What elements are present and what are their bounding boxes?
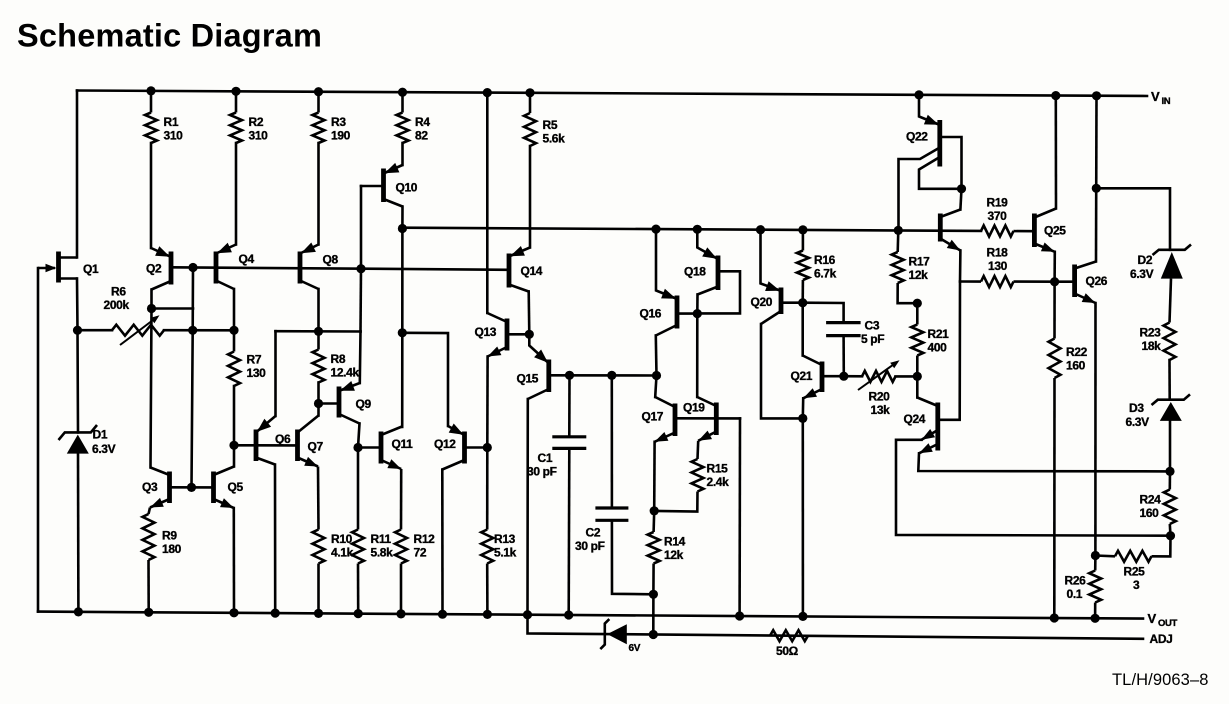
svg-text:R11: R11 bbox=[371, 532, 392, 546]
diode D2 zener 6.3V bbox=[1130, 245, 1191, 281]
svg-text:Q5: Q5 bbox=[228, 480, 244, 494]
diode D4 zener 6V bbox=[600, 619, 640, 654]
junction bottom rail / R13 bbox=[483, 610, 492, 619]
svg-text:2.4k: 2.4k bbox=[707, 475, 730, 489]
wire Q17 emitter to R14 bbox=[653, 442, 656, 511]
wire R1 to Q2 emitter bbox=[150, 143, 153, 248]
transistor Q14 (PNP) bbox=[509, 246, 543, 292]
wire Q3/Q5 base line bbox=[170, 486, 214, 489]
junction Q3/Q5 base bbox=[187, 483, 196, 492]
wire V_IN top rail bbox=[77, 91, 1147, 97]
junction second rail / R17 / Q22 collector bbox=[894, 226, 903, 235]
svg-text:Q22: Q22 bbox=[906, 129, 928, 143]
transistor Q18 (PNP) bbox=[684, 229, 740, 313]
resistor R11 bbox=[352, 448, 393, 614]
svg-text:12k: 12k bbox=[909, 268, 929, 282]
wire Q23 emitter to R18 bbox=[959, 251, 962, 282]
junction Q16/Q17 collectors bbox=[652, 371, 661, 380]
resistor 50Ω (ADJ line) bbox=[770, 630, 808, 658]
junction bottom rail / R11 bbox=[354, 609, 363, 618]
transistor Q12 (PNP, mirrored) bbox=[434, 424, 465, 470]
transistor Q22 (PNP, dual collector) bbox=[899, 95, 962, 231]
svg-text:Q6: Q6 bbox=[275, 432, 291, 446]
resistor R2 bbox=[230, 91, 268, 143]
svg-text:6.7k: 6.7k bbox=[814, 266, 837, 280]
svg-text:R22: R22 bbox=[1066, 345, 1088, 359]
diode D1 zener 6.3V bbox=[59, 425, 116, 456]
svg-text:R13: R13 bbox=[494, 532, 516, 546]
junction Q4 collector / R7 bbox=[229, 326, 238, 335]
wire Q24 emitter 1 to R24/R25 node bbox=[896, 440, 1171, 536]
svg-text:R1: R1 bbox=[164, 115, 179, 129]
junction R8 / Q9 base / Q7 collector bbox=[314, 399, 323, 408]
svg-text:OUT: OUT bbox=[1158, 618, 1178, 629]
svg-text:Q7: Q7 bbox=[308, 439, 324, 453]
junction Q1 source / R6 bbox=[73, 326, 82, 335]
svg-text:TL/H/9063–8: TL/H/9063–8 bbox=[1112, 671, 1209, 689]
svg-text:130: 130 bbox=[988, 259, 1008, 273]
wire Q10 collector to second rail bbox=[401, 207, 404, 229]
svg-text:IN: IN bbox=[1162, 96, 1171, 107]
svg-text:Q24: Q24 bbox=[904, 412, 926, 426]
wire bottom rail to V_OUT bbox=[38, 612, 1143, 619]
transistor Q5 (NPN) bbox=[214, 467, 244, 509]
junction Q25 emitter / R18 / Q26 base bbox=[1050, 277, 1059, 286]
wire Q24 collector bbox=[916, 376, 919, 397]
resistor R3 bbox=[313, 92, 351, 143]
wire Q12 collector to bottom rail bbox=[441, 470, 444, 615]
svg-text:R25: R25 bbox=[1124, 564, 1146, 578]
svg-text:5.8k: 5.8k bbox=[371, 545, 394, 559]
junction R21 / R20 / Q24 collector bbox=[913, 372, 922, 381]
svg-text:Q19: Q19 bbox=[683, 400, 705, 414]
transistor Q10 (PNP) bbox=[384, 163, 418, 207]
wire Q2 collector to Q3 collector bbox=[151, 309, 152, 468]
transistor Q15 (PNP) bbox=[517, 334, 549, 399]
wire node to Q19 collector bbox=[696, 314, 699, 397]
junction bottom rail / R22 bbox=[1050, 613, 1059, 622]
resistor R7 bbox=[228, 330, 266, 386]
resistor R25 bbox=[1095, 536, 1170, 592]
resistor R26 bbox=[1065, 556, 1102, 619]
junction R24 / R25 / Q24 emitter 1 bbox=[1166, 531, 1175, 540]
wire Q6/Q7 base line bbox=[234, 444, 298, 447]
wire base line drop to bottom rail bbox=[738, 418, 741, 616]
svg-text:C1: C1 bbox=[538, 451, 553, 465]
wire ADJ line bbox=[528, 615, 1144, 639]
transistor Q2 (PNP) bbox=[146, 246, 171, 289]
svg-text:72: 72 bbox=[414, 545, 427, 559]
svg-text:R6: R6 bbox=[111, 284, 126, 298]
capacitor C2 30pF bbox=[575, 375, 653, 594]
svg-text:82: 82 bbox=[415, 128, 428, 142]
wire Q10 base bbox=[361, 185, 384, 188]
junction base rail / Q2 tie column bbox=[188, 263, 197, 272]
junction bottom rail / Q5 bbox=[229, 608, 238, 617]
wire Q11 base bbox=[358, 446, 381, 449]
wire Q17 collector bbox=[655, 376, 656, 398]
wire Q13 base bbox=[507, 333, 529, 336]
transistor Q23 (NPN) bbox=[940, 210, 960, 251]
wire Q6 collector to bottom rail bbox=[274, 465, 277, 614]
junction bottom rail / Q12 bbox=[438, 610, 447, 619]
junction Q22 base+collector / Q23 collector bbox=[957, 184, 966, 193]
svg-text:R19: R19 bbox=[987, 195, 1009, 209]
svg-text:18k: 18k bbox=[1142, 339, 1162, 353]
resistor R12 bbox=[395, 469, 435, 614]
svg-text:R26: R26 bbox=[1065, 573, 1087, 587]
transistor Q17 (NPN, mirrored) bbox=[642, 397, 676, 442]
wire Q1 drain to V_IN bbox=[76, 91, 79, 258]
resistor R18 bbox=[960, 245, 1055, 287]
node V_OUT terminal bbox=[1148, 611, 1178, 629]
transistor Q24 (NPN, mirrored, dual emitter) bbox=[904, 398, 938, 454]
transistor Q8 (PNP) bbox=[300, 243, 338, 290]
svg-text:R18: R18 bbox=[987, 245, 1009, 259]
resistor R23 bbox=[1140, 279, 1176, 360]
junction V_IN rail / Q13 collector bbox=[483, 88, 492, 97]
wire R2 to Q4 emitter bbox=[235, 143, 238, 245]
wire R6 left lead bbox=[78, 329, 113, 332]
wire Q16 collector bbox=[654, 336, 657, 376]
junction V_IN rail / R4 bbox=[398, 88, 407, 97]
wire D3 anode to node bbox=[1169, 421, 1172, 472]
transistor Q9 (PNP) bbox=[339, 381, 371, 424]
svg-text:R9: R9 bbox=[162, 528, 177, 542]
svg-text:30 pF: 30 pF bbox=[527, 464, 557, 478]
svg-text:5.1k: 5.1k bbox=[494, 545, 517, 559]
wire Q16 base bbox=[677, 312, 697, 315]
junction R14 / C2 bbox=[649, 590, 658, 599]
junction V_IN rail / Q26 collector bbox=[1092, 91, 1101, 100]
svg-text:6.3V: 6.3V bbox=[92, 442, 116, 456]
wire Q21 base bbox=[822, 375, 844, 378]
junction R16 / Q20 base / Q21 collector / C3 bbox=[798, 298, 807, 307]
wire Q24 base loop up to R18 node bbox=[938, 282, 960, 420]
transistor Q4 (PNP) bbox=[216, 243, 254, 289]
svg-text:190: 190 bbox=[331, 128, 351, 142]
svg-text:R4: R4 bbox=[415, 115, 430, 129]
resistor R22 bbox=[1049, 282, 1088, 618]
wire Q18 collector to node bbox=[696, 295, 699, 314]
wire Q21 emitter bbox=[801, 398, 804, 418]
transistor Q21 (NPN, mirrored) bbox=[791, 356, 823, 399]
wire Q20 base bbox=[781, 301, 803, 304]
junction C3 / R20 bbox=[839, 372, 848, 381]
svg-text:400: 400 bbox=[928, 340, 948, 354]
svg-text:Q17: Q17 bbox=[642, 409, 664, 423]
junction second rail / R16 bbox=[798, 225, 807, 234]
svg-text:310: 310 bbox=[164, 128, 184, 142]
wire R8 to Q7 collector / Q9 base bbox=[317, 383, 320, 416]
svg-text:310: 310 bbox=[249, 128, 269, 142]
wire to R20 bbox=[844, 375, 862, 378]
junction C2 branch bbox=[607, 371, 616, 380]
svg-text:160: 160 bbox=[1066, 358, 1086, 372]
resistor R19 bbox=[981, 195, 1034, 236]
svg-text:Q10: Q10 bbox=[396, 180, 418, 194]
wire R20 to R21 bbox=[896, 375, 918, 378]
junction V_IN rail / Q25 collector bbox=[1051, 91, 1060, 100]
junction C1 branch bbox=[565, 371, 574, 380]
junction D2 branch bbox=[1092, 184, 1101, 193]
junction Q6 base line bbox=[229, 441, 238, 450]
resistor R13 bbox=[481, 448, 516, 615]
wire Q13 emitter to Q12 base node bbox=[486, 357, 489, 448]
resistor R14 bbox=[648, 511, 686, 635]
resistor R21 bbox=[911, 303, 949, 376]
svg-text:Q16: Q16 bbox=[640, 306, 662, 320]
junction R14 top / R15 bbox=[650, 506, 659, 515]
resistor R24 bbox=[1140, 471, 1176, 535]
wire R3 to Q8 emitter bbox=[317, 143, 320, 245]
wire Q1 source to R6 node and D1 bbox=[77, 279, 78, 433]
junction Q13 emitter / Q12 base / R13 bbox=[483, 443, 492, 452]
wire segment to Q9 emitter bbox=[358, 332, 361, 384]
junction bottom rail / Q6 bbox=[271, 609, 280, 618]
svg-text:R15: R15 bbox=[707, 461, 729, 475]
svg-text:R12: R12 bbox=[414, 532, 436, 546]
junction R25 / R26 / Q26 emitter bbox=[1091, 551, 1100, 560]
junction R17 / R21 / C3 line bbox=[913, 299, 922, 308]
wire Q25 emitter bbox=[1053, 252, 1056, 282]
svg-text:Q2: Q2 bbox=[146, 261, 162, 275]
transistor Q20 (PNP) bbox=[751, 230, 782, 324]
wire Q24 emitter 2 to D3/R24 node bbox=[918, 453, 1170, 471]
wire Q2 collector bbox=[150, 290, 153, 309]
svg-text:R7: R7 bbox=[247, 352, 262, 366]
wire R5 to Q14 emitter bbox=[529, 146, 532, 248]
svg-text:R8: R8 bbox=[331, 352, 346, 366]
wire Q26 emitter column bbox=[1094, 303, 1097, 556]
resistor R4 bbox=[397, 92, 431, 143]
junction Q12 emitter branch bbox=[398, 328, 407, 337]
junction Q21 emitter / Q20 collector bbox=[798, 414, 807, 423]
wire Q25 collector to V_IN bbox=[1055, 96, 1058, 209]
svg-text:12k: 12k bbox=[664, 548, 684, 562]
svg-text:30 pF: 30 pF bbox=[575, 539, 605, 553]
wire branch to Q12 emitter bbox=[402, 333, 448, 426]
wire Q4 collector bbox=[233, 289, 236, 330]
svg-text:Q3: Q3 bbox=[142, 480, 158, 494]
junction bottom rail / Q17 base drop bbox=[735, 611, 744, 620]
svg-text:R24: R24 bbox=[1140, 492, 1162, 506]
transistor Q6 (PNP) bbox=[256, 416, 291, 465]
svg-text:Q25: Q25 bbox=[1044, 223, 1066, 237]
junction bottom rail / R10 bbox=[314, 609, 323, 618]
capacitor C3 5pF bbox=[803, 303, 885, 377]
wire Q10 collector column to Q11 collector bbox=[401, 229, 404, 428]
svg-text:R2: R2 bbox=[249, 115, 264, 129]
svg-text:Q8: Q8 bbox=[323, 252, 339, 266]
svg-text:5 pF: 5 pF bbox=[861, 332, 884, 346]
wire base-rail to Q3/Q5 base bbox=[192, 268, 194, 488]
svg-text:R3: R3 bbox=[331, 115, 346, 129]
wire Q8 collector bbox=[317, 289, 320, 331]
wire Q15 collector to bottom rail / ADJ tap bbox=[526, 399, 529, 615]
wire Q14 collector bbox=[527, 292, 530, 335]
svg-text:ADJ: ADJ bbox=[1150, 632, 1173, 646]
node ADJ terminal bbox=[1150, 632, 1173, 646]
node V_IN terminal bbox=[1151, 89, 1171, 107]
svg-text:180: 180 bbox=[162, 542, 182, 556]
wire Q12 base bbox=[465, 446, 488, 449]
svg-text:Q9: Q9 bbox=[356, 397, 372, 411]
junction bottom rail / Q21 bbox=[798, 612, 807, 621]
svg-text:Q11: Q11 bbox=[392, 437, 414, 451]
transistor Q7 (NPN) bbox=[298, 416, 324, 467]
svg-text:3: 3 bbox=[1133, 578, 1140, 592]
svg-text:R17: R17 bbox=[909, 254, 931, 268]
svg-text:200k: 200k bbox=[104, 298, 130, 312]
wire Q6 emitter / R8 / Q9 emitter segment bbox=[276, 330, 361, 333]
wire Q26 collector column bbox=[1095, 96, 1098, 262]
junction V_IN rail / R5 bbox=[525, 88, 534, 97]
wire R6 to R7/Q4 node bbox=[164, 329, 234, 332]
wire R4 to Q10 emitter bbox=[401, 143, 404, 165]
svg-text:R16: R16 bbox=[814, 253, 836, 267]
svg-text:160: 160 bbox=[1140, 506, 1160, 520]
svg-text:6.3V: 6.3V bbox=[1130, 267, 1154, 281]
junction ADJ line / R14 bbox=[649, 630, 658, 639]
junction V_IN rail / R2 bbox=[231, 87, 240, 96]
transistor Q3 (NPN, mirrored) bbox=[142, 468, 170, 508]
svg-text:C2: C2 bbox=[586, 525, 601, 539]
junction V_IN rail / Q22 emitter bbox=[914, 90, 923, 99]
transistor Q11 (NPN) bbox=[381, 427, 413, 470]
resistor R15 bbox=[654, 441, 729, 512]
svg-text:C3: C3 bbox=[865, 318, 880, 332]
junction bottom rail / ADJ tap bbox=[523, 610, 532, 619]
wire Q9 base to R8 node bbox=[319, 402, 340, 405]
transistor Q25 (NPN) bbox=[1034, 209, 1066, 252]
junction bottom rail / C1 bbox=[564, 610, 573, 619]
svg-text:Q1: Q1 bbox=[83, 262, 99, 276]
svg-text:D3: D3 bbox=[1129, 401, 1144, 415]
svg-text:V: V bbox=[1151, 89, 1160, 104]
junction second rail start bbox=[398, 224, 407, 233]
svg-text:130: 130 bbox=[247, 366, 267, 380]
resistor R16 bbox=[797, 230, 837, 303]
svg-text:Q13: Q13 bbox=[475, 325, 497, 339]
svg-text:Q14: Q14 bbox=[521, 264, 543, 278]
junction second rail / Q20 emitter bbox=[756, 225, 765, 234]
svg-text:13k: 13k bbox=[871, 403, 891, 417]
junction bottom rail / D1 bbox=[74, 607, 83, 616]
svg-text:Q15: Q15 bbox=[517, 371, 539, 385]
wire Q2 collector-base tie bbox=[152, 307, 194, 310]
wire R23 to D3 bbox=[1168, 360, 1171, 400]
junction second rail / Q16 emitter bbox=[651, 225, 660, 234]
wire Q17/Q19 base line bbox=[675, 417, 740, 420]
wire base rail Q2/Q4/Q8/Q14 bbox=[171, 267, 509, 270]
transistor Q1 (JFET) bbox=[38, 252, 99, 283]
resistor R17 bbox=[892, 230, 930, 303]
wire Q21 collector to R16 node bbox=[801, 303, 804, 356]
svg-text:Q12: Q12 bbox=[434, 437, 456, 451]
svg-text:370: 370 bbox=[988, 209, 1008, 223]
svg-text:R5: R5 bbox=[543, 118, 558, 132]
resistor R10 bbox=[313, 467, 354, 614]
wire Q13 collector column bbox=[486, 93, 489, 313]
wire base rail node down to segment bbox=[359, 269, 362, 332]
resistor R6 variable 200k bbox=[104, 284, 165, 345]
junction V_IN rail / R3 bbox=[314, 87, 323, 96]
wire Q5 emitter to bottom rail bbox=[233, 508, 236, 613]
junction bottom rail / R26 / V_OUT bbox=[1091, 614, 1100, 623]
junction Q14 collector / Q13 base / Q15 emitter bbox=[525, 330, 534, 339]
svg-text:Q20: Q20 bbox=[751, 295, 773, 309]
svg-text:V: V bbox=[1148, 611, 1157, 626]
wire Q26 base bbox=[1055, 280, 1075, 283]
svg-text:50Ω: 50Ω bbox=[776, 644, 799, 658]
transistor Q26 (NPN) bbox=[1075, 262, 1108, 304]
transistor Q13 (NPN, mirrored) bbox=[475, 313, 508, 357]
svg-text:0.1: 0.1 bbox=[1067, 587, 1083, 601]
capacitor C1 30pF bbox=[527, 375, 586, 615]
svg-text:4.1k: 4.1k bbox=[331, 545, 354, 559]
junction bottom rail / R9 bbox=[144, 608, 153, 617]
wire Q15 base line bbox=[549, 374, 657, 377]
wire second rail (Q10 collector to Q23 base / R19) bbox=[402, 228, 981, 231]
junction second rail / Q18 emitter bbox=[693, 225, 702, 234]
wire Q1 gate to bottom rail bbox=[37, 268, 40, 612]
junction Q9 collector / Q11 base / R11 bbox=[353, 443, 362, 452]
svg-text:5.6k: 5.6k bbox=[543, 131, 566, 145]
svg-text:R20: R20 bbox=[869, 389, 891, 403]
diode D3 zener 6.3V bbox=[1126, 394, 1191, 429]
wire Q21 emitter to bottom rail bbox=[801, 418, 804, 616]
junction base rail / Q10 base / Q9 bbox=[356, 264, 365, 273]
junction bottom rail / R12 bbox=[396, 609, 405, 618]
wire D2 branch from Q26 collector bbox=[1096, 188, 1170, 250]
svg-text:R21: R21 bbox=[928, 327, 950, 341]
junction R6 line / tie column bbox=[188, 326, 197, 335]
svg-text:6.3V: 6.3V bbox=[1126, 415, 1150, 429]
resistor R5 bbox=[524, 93, 565, 146]
wire Q23 collector bbox=[960, 189, 961, 210]
wire Q10 base to base rail bbox=[360, 186, 363, 269]
wire D1 anode to bottom rail bbox=[77, 454, 80, 612]
svg-text:D2: D2 bbox=[1138, 253, 1153, 267]
transistor Q19 (NPN) bbox=[683, 397, 716, 441]
svg-text:Q4: Q4 bbox=[239, 252, 255, 266]
wire R7 to Q5 collector bbox=[233, 386, 236, 467]
junction Q18 base+collector / Q16 base / Q19 collector bbox=[693, 309, 702, 318]
resistor R1 bbox=[145, 91, 183, 143]
svg-text:Schematic Diagram: Schematic Diagram bbox=[17, 18, 322, 54]
svg-text:6V: 6V bbox=[629, 643, 641, 654]
svg-text:12.4k: 12.4k bbox=[331, 365, 360, 379]
junction V_IN rail / R1 bbox=[146, 86, 155, 95]
wire Q20 collector loop bbox=[761, 324, 803, 418]
junction Q2 collector tie bbox=[147, 304, 156, 313]
svg-text:R23: R23 bbox=[1140, 325, 1162, 339]
resistor R9 bbox=[143, 508, 182, 613]
transistor Q16 (PNP) bbox=[640, 229, 678, 335]
svg-text:Q26: Q26 bbox=[1086, 274, 1108, 288]
resistor R8 bbox=[313, 331, 360, 382]
junction R8 top / segment bbox=[314, 327, 323, 336]
svg-text:R14: R14 bbox=[664, 534, 686, 548]
svg-text:Q18: Q18 bbox=[684, 264, 706, 278]
resistor R20 variable 13k bbox=[858, 360, 900, 417]
svg-text:Q21: Q21 bbox=[791, 369, 813, 383]
junction D3 / R24 / Q24 emitter 2 bbox=[1165, 467, 1174, 476]
wire Q9 collector to Q11 base bbox=[358, 424, 360, 448]
svg-text:D1: D1 bbox=[93, 427, 108, 441]
wire Q6 emitter to segment bbox=[274, 331, 277, 416]
